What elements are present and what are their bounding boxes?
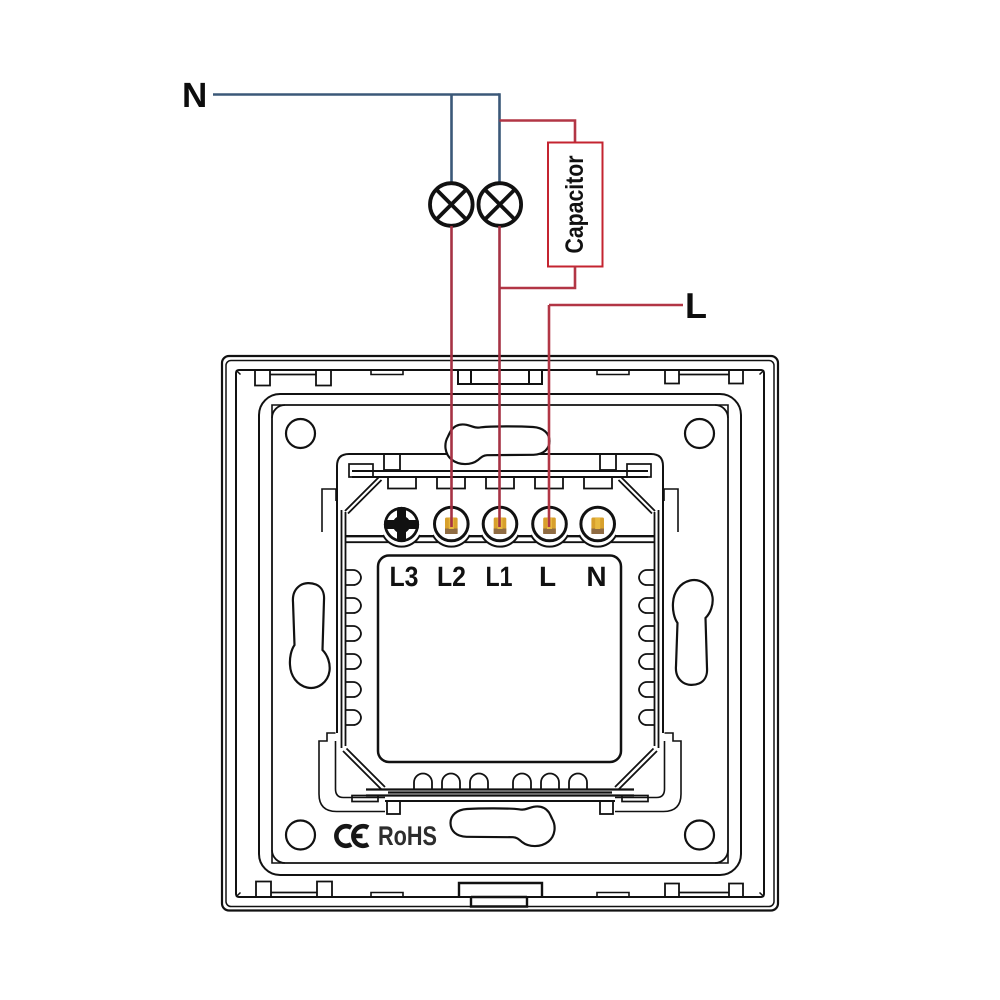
top edge clip bridge right bbox=[665, 370, 743, 384]
top edge slot left bbox=[371, 370, 403, 375]
screw hole top-right bbox=[685, 419, 714, 448]
capacitor C1 box bbox=[548, 143, 603, 267]
module right teeth column bbox=[639, 570, 655, 725]
module bottom bar bbox=[366, 790, 634, 796]
wire L horizontal bbox=[549, 304, 683, 307]
bottom edge slot right bbox=[597, 893, 629, 898]
terminal L2 socket arc bbox=[433, 535, 470, 547]
terminal L3 screw (black cross head) bbox=[381, 505, 422, 545]
wire capacitor top branch bbox=[500, 121, 576, 144]
lamp E1 bbox=[430, 183, 473, 226]
right keyhole slot (vertical mirror of left, shifted right) bbox=[673, 580, 713, 685]
left keyhole slot bbox=[290, 583, 330, 688]
bottom center tab bbox=[459, 883, 542, 907]
module corner chamfer bottom-left bbox=[343, 749, 385, 790]
wire L to terminal L bbox=[548, 305, 551, 527]
module top bar end tab right bbox=[627, 464, 651, 477]
bottom keyhole slot (mirror of top, shifted down) bbox=[451, 806, 555, 846]
wire N horizontal (neutral bus) bbox=[213, 93, 500, 96]
top edge slot right bbox=[597, 370, 629, 375]
wire N drop to lamp E2 bbox=[498, 93, 501, 183]
terminal L screw bbox=[533, 507, 567, 541]
terminal L3 socket arc bbox=[383, 535, 420, 547]
module left teeth column bbox=[346, 570, 362, 725]
screw hole top-left bbox=[286, 419, 315, 448]
lamp E2 bbox=[479, 183, 522, 226]
plate central opening bbox=[337, 454, 663, 801]
glass panel outer edge (second line) bbox=[226, 361, 774, 907]
mounting plate outer edge bbox=[259, 394, 741, 875]
opening left lower bevel piece bbox=[319, 733, 385, 812]
wire lamp E2 to terminal L1 bbox=[498, 226, 501, 527]
svg-text:L: L bbox=[539, 561, 556, 592]
inner frame corner seams bbox=[236, 370, 764, 897]
svg-text:L2: L2 bbox=[437, 561, 466, 592]
svg-text:L: L bbox=[685, 285, 707, 326]
bottom edge clip bridge left bbox=[256, 882, 332, 898]
module bottom bar end tab right bbox=[622, 796, 648, 802]
opening right upper notch bbox=[664, 489, 678, 532]
module corner chamfer bottom-right bbox=[615, 749, 657, 790]
svg-text:N: N bbox=[182, 76, 207, 115]
terminal N socket arc bbox=[579, 535, 616, 547]
opening right lower bevel piece bbox=[615, 733, 681, 812]
opening left upper notch bbox=[322, 489, 336, 532]
module bottom bar end tab left bbox=[352, 796, 378, 802]
top center tab bbox=[458, 370, 542, 384]
mounting plate inner bevel bbox=[272, 405, 728, 863]
svg-text:N: N bbox=[586, 561, 606, 592]
terminal L1 screw bbox=[483, 507, 517, 541]
terminal L2 screw bbox=[435, 507, 469, 541]
plate bevel corner seams bbox=[272, 405, 728, 863]
glass panel outer edge (outer line) bbox=[222, 356, 778, 911]
wire N drop to lamp E1 bbox=[450, 95, 453, 184]
top edge clip bridge left bbox=[255, 370, 331, 386]
module corner chamfer top-left bbox=[345, 478, 382, 514]
CE mark bbox=[336, 826, 368, 846]
svg-text:RoHS: RoHS bbox=[378, 821, 437, 851]
connector tab module-top right bbox=[600, 454, 616, 470]
bottom edge clip bridge right bbox=[665, 884, 743, 898]
bottom edge slot left bbox=[371, 893, 403, 898]
touch panel rect bbox=[378, 556, 621, 763]
module top bar bbox=[352, 471, 648, 477]
glass panel inner line bbox=[236, 370, 764, 897]
screw hole bottom-left bbox=[286, 821, 315, 850]
screw hole bottom-right bbox=[685, 821, 714, 850]
terminal N screw bbox=[581, 507, 615, 541]
module top bar end tab left bbox=[349, 464, 373, 477]
connector tab module-top left bbox=[384, 454, 400, 470]
wire capacitor bottom branch bbox=[500, 267, 576, 289]
module corner chamfer top-right bbox=[619, 478, 656, 514]
terminal shelf line bbox=[346, 535, 654, 537]
module top teeth row bbox=[388, 477, 612, 489]
wire lamp E1 to terminal L2 bbox=[450, 226, 453, 527]
module right edge bbox=[655, 510, 659, 748]
top keyhole slot bbox=[445, 424, 549, 464]
svg-text:L1: L1 bbox=[485, 561, 512, 592]
connector tab module-bottom left bbox=[387, 801, 400, 814]
terminal L socket arc bbox=[531, 535, 568, 547]
terminal L1 socket arc bbox=[482, 535, 519, 547]
connector tab module-bottom right bbox=[600, 801, 613, 814]
svg-text:L3: L3 bbox=[389, 561, 418, 592]
module left edge bbox=[342, 510, 346, 748]
module bottom teeth row bbox=[414, 774, 587, 791]
svg-text:Capacitor: Capacitor bbox=[561, 155, 589, 253]
